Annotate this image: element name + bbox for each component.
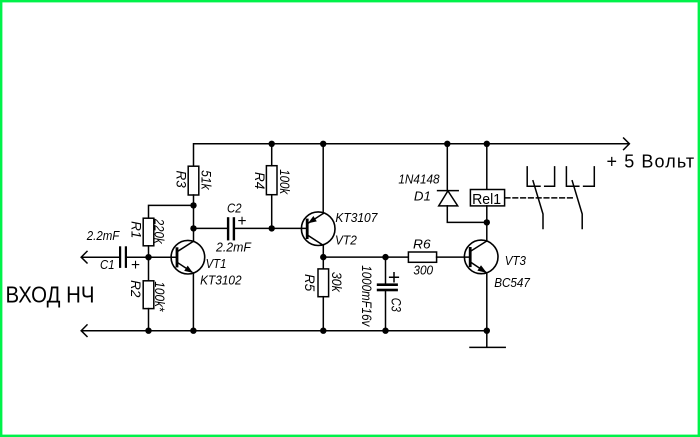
wire: R2 bottom lead bbox=[148, 309, 150, 331]
capacitor C1 bbox=[119, 246, 127, 268]
resistor R5 bbox=[318, 269, 329, 297]
wire: R1 bottom to R2 top bbox=[148, 246, 150, 281]
wire: Rel1 to collector junction bbox=[486, 206, 488, 223]
wire: junction to VT3 collector bbox=[486, 222, 488, 241]
transistor VT3 (BC547 NPN) bbox=[464, 240, 498, 274]
resistor R3 bbox=[188, 166, 199, 195]
svg-text:220k: 220k bbox=[152, 218, 167, 245]
node: C3 tap bbox=[382, 254, 388, 260]
wire: C1 to VT1 base bbox=[127, 256, 177, 258]
wire: R6 to VT3 base bbox=[437, 256, 471, 258]
node: R4 on +5V rail bbox=[269, 141, 275, 147]
input arrow (bottom) bbox=[81, 325, 87, 337]
node: VT2 emitter on +5V rail bbox=[320, 141, 326, 147]
svg-text:ВХОД НЧ: ВХОД НЧ bbox=[6, 282, 95, 308]
wire: +5V top rail bbox=[194, 144, 629, 167]
node: C2 tap on collector line bbox=[190, 225, 196, 231]
svg-text:+ 5 Вольт: + 5 Вольт bbox=[607, 152, 696, 172]
wire: VT3 emitter to ground bbox=[486, 273, 488, 331]
relay contact 2 arm bbox=[572, 181, 582, 229]
resistor R4 bbox=[266, 166, 277, 195]
wire: C3 top lead bbox=[385, 257, 387, 283]
mechanical link (dashed) Rel1 to contacts bbox=[505, 197, 573, 199]
svg-text:51k: 51k bbox=[198, 170, 213, 191]
transistor VT1 (KT3102 NPN) bbox=[171, 240, 205, 274]
node: VT2 collector / R5 / R6 junction bbox=[320, 254, 326, 260]
svg-text:R3: R3 bbox=[174, 170, 189, 188]
wire: VT1 emitter to ground rail bbox=[192, 273, 194, 331]
svg-text:100k: 100k bbox=[277, 169, 292, 195]
wire: C3 bottom lead bbox=[385, 291, 387, 330]
relay coil Rel1 bbox=[470, 190, 504, 206]
node: VT3 emitter / ground junction bbox=[484, 328, 490, 334]
wire: R3 to VT1 collector bbox=[193, 195, 195, 241]
node: R5 on ground rail bbox=[320, 328, 326, 334]
wire: VT2 collector lead bbox=[322, 245, 324, 257]
wire: R1 top lead to collector line bbox=[149, 205, 194, 218]
capacitor C2 bbox=[227, 217, 235, 240]
node: D1 on +5V rail bbox=[444, 141, 450, 147]
wire: R4 bottom lead bbox=[271, 195, 273, 228]
svg-text:1N4148: 1N4148 bbox=[398, 171, 440, 186]
wire: ground rail (bottom) bbox=[82, 330, 487, 332]
svg-text:R6: R6 bbox=[413, 236, 431, 251]
node: Rel1 on +5V rail bbox=[484, 141, 490, 147]
svg-text:C1: C1 bbox=[100, 257, 115, 272]
relay contact 1 arm bbox=[533, 181, 543, 229]
node: D1 / Rel1 / VT3 collector junction bbox=[484, 219, 490, 225]
ground bbox=[470, 331, 505, 348]
svg-text:+: + bbox=[131, 257, 140, 274]
svg-text:R5: R5 bbox=[302, 274, 317, 292]
power arrow (+5V) bbox=[624, 138, 630, 150]
svg-text:VT2: VT2 bbox=[335, 233, 358, 248]
node: C3 on ground rail bbox=[382, 328, 388, 334]
node: R4 / C2 / VT2 base junction bbox=[269, 225, 275, 231]
wire: collector node to R6 bbox=[323, 256, 408, 258]
node: R1 / collector junction bbox=[190, 202, 196, 208]
node: R1 / R2 / VT1 base junction bbox=[145, 254, 151, 260]
capacitor C3 bbox=[377, 283, 398, 291]
svg-text:KT3102: KT3102 bbox=[200, 273, 242, 288]
wire: R4 top lead bbox=[271, 144, 273, 166]
node: R2 on ground rail bbox=[145, 328, 151, 334]
diode D1 (1N4148) bbox=[438, 191, 459, 206]
wire: input to C1 bbox=[82, 256, 120, 258]
svg-text:C3: C3 bbox=[389, 298, 404, 312]
wire: collector node to C2 bbox=[194, 227, 228, 229]
svg-text:+: + bbox=[388, 267, 400, 290]
node: VT1 emitter on ground rail bbox=[190, 328, 196, 334]
svg-text:R1: R1 bbox=[129, 221, 144, 238]
svg-text:D1: D1 bbox=[414, 189, 431, 204]
svg-text:100k*: 100k* bbox=[152, 281, 167, 312]
svg-text:R2: R2 bbox=[128, 280, 143, 298]
relay contact 1 right terminal bbox=[545, 167, 555, 186]
wire: D1 anode to collector junction bbox=[447, 206, 487, 223]
svg-text:VT1: VT1 bbox=[206, 256, 227, 271]
wire: +5V rail to VT2 emitter bbox=[322, 144, 324, 214]
svg-text:2.2mF: 2.2mF bbox=[215, 239, 252, 254]
svg-text:+: + bbox=[237, 213, 246, 230]
relay contact 2 right terminal bbox=[584, 167, 595, 186]
resistor R6 bbox=[408, 252, 436, 262]
wire: rail to Rel1 bbox=[486, 144, 488, 190]
input arrow (top) bbox=[81, 251, 87, 263]
relay contact 2 left terminal bbox=[566, 167, 578, 186]
svg-text:VT3: VT3 bbox=[505, 253, 527, 268]
wire: R5 top lead bbox=[322, 257, 324, 269]
svg-text:BC547: BC547 bbox=[494, 275, 530, 290]
svg-text:2.2mF: 2.2mF bbox=[86, 228, 120, 243]
transistor VT2 (KT3107 PNP) bbox=[301, 212, 335, 246]
svg-text:30k: 30k bbox=[329, 272, 344, 293]
svg-text:KT3107: KT3107 bbox=[335, 210, 378, 225]
resistor R1 bbox=[143, 218, 154, 246]
resistor R2 bbox=[143, 281, 154, 309]
svg-text:1000mF16v: 1000mF16v bbox=[359, 265, 374, 327]
relay contact 1 left terminal bbox=[527, 167, 540, 186]
wire: C2 to VT2 base bbox=[235, 227, 307, 229]
wire: R5 bottom lead bbox=[322, 297, 324, 331]
svg-text:300: 300 bbox=[413, 263, 433, 278]
svg-text:R4: R4 bbox=[252, 172, 267, 189]
wire: rail to D1 cathode bbox=[446, 144, 448, 191]
svg-text:Rel1: Rel1 bbox=[472, 192, 501, 208]
